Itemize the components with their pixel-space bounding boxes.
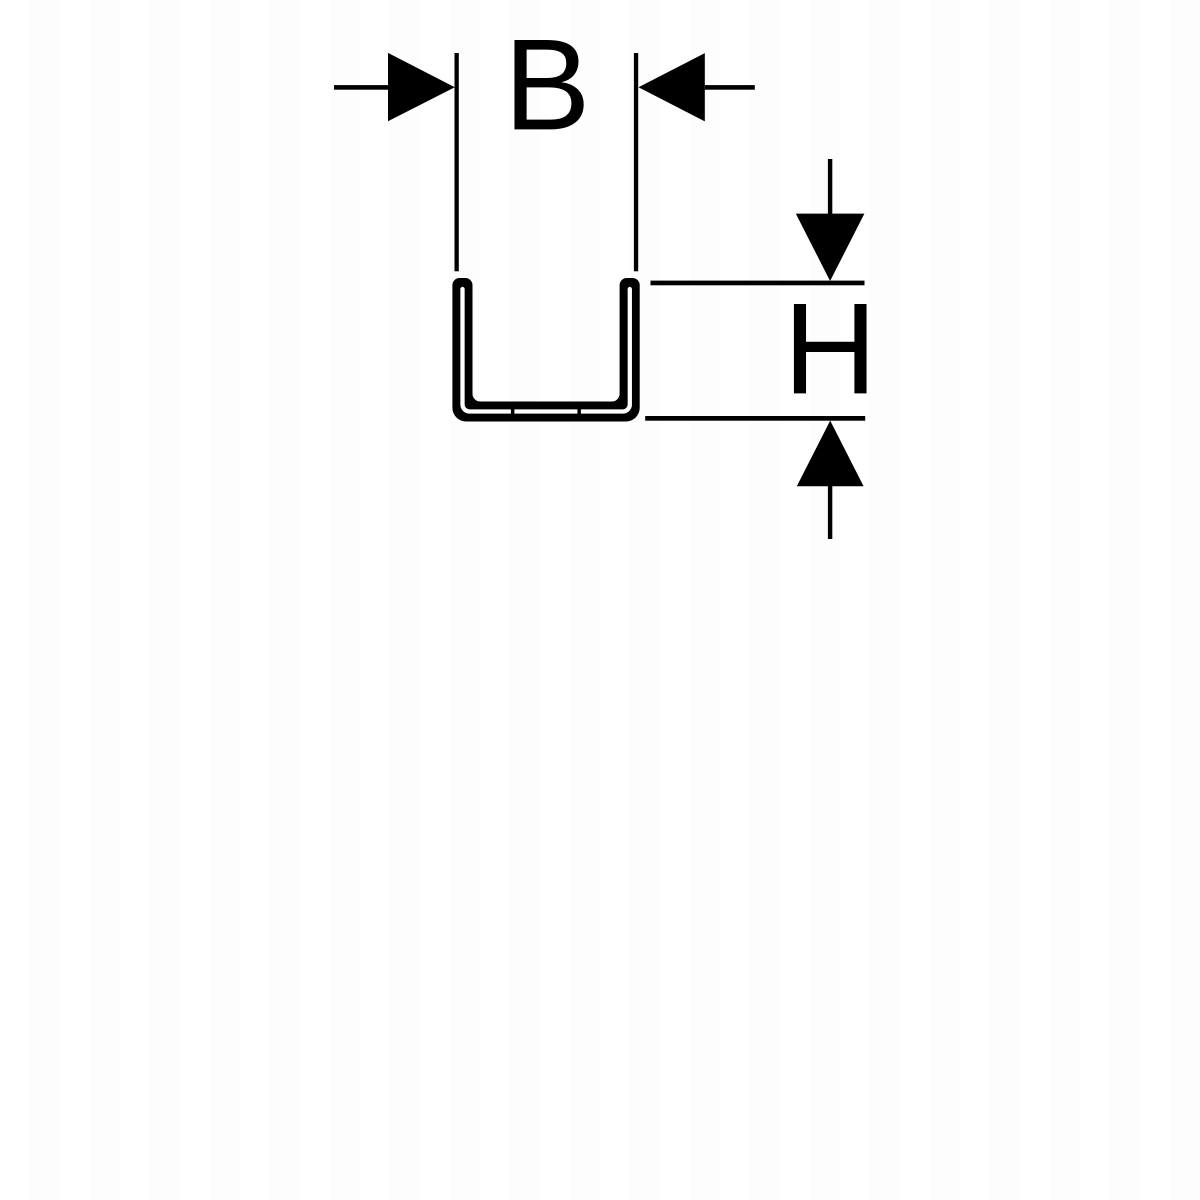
svg-text:B: B (504, 11, 591, 157)
svg-text:H: H (783, 275, 877, 421)
